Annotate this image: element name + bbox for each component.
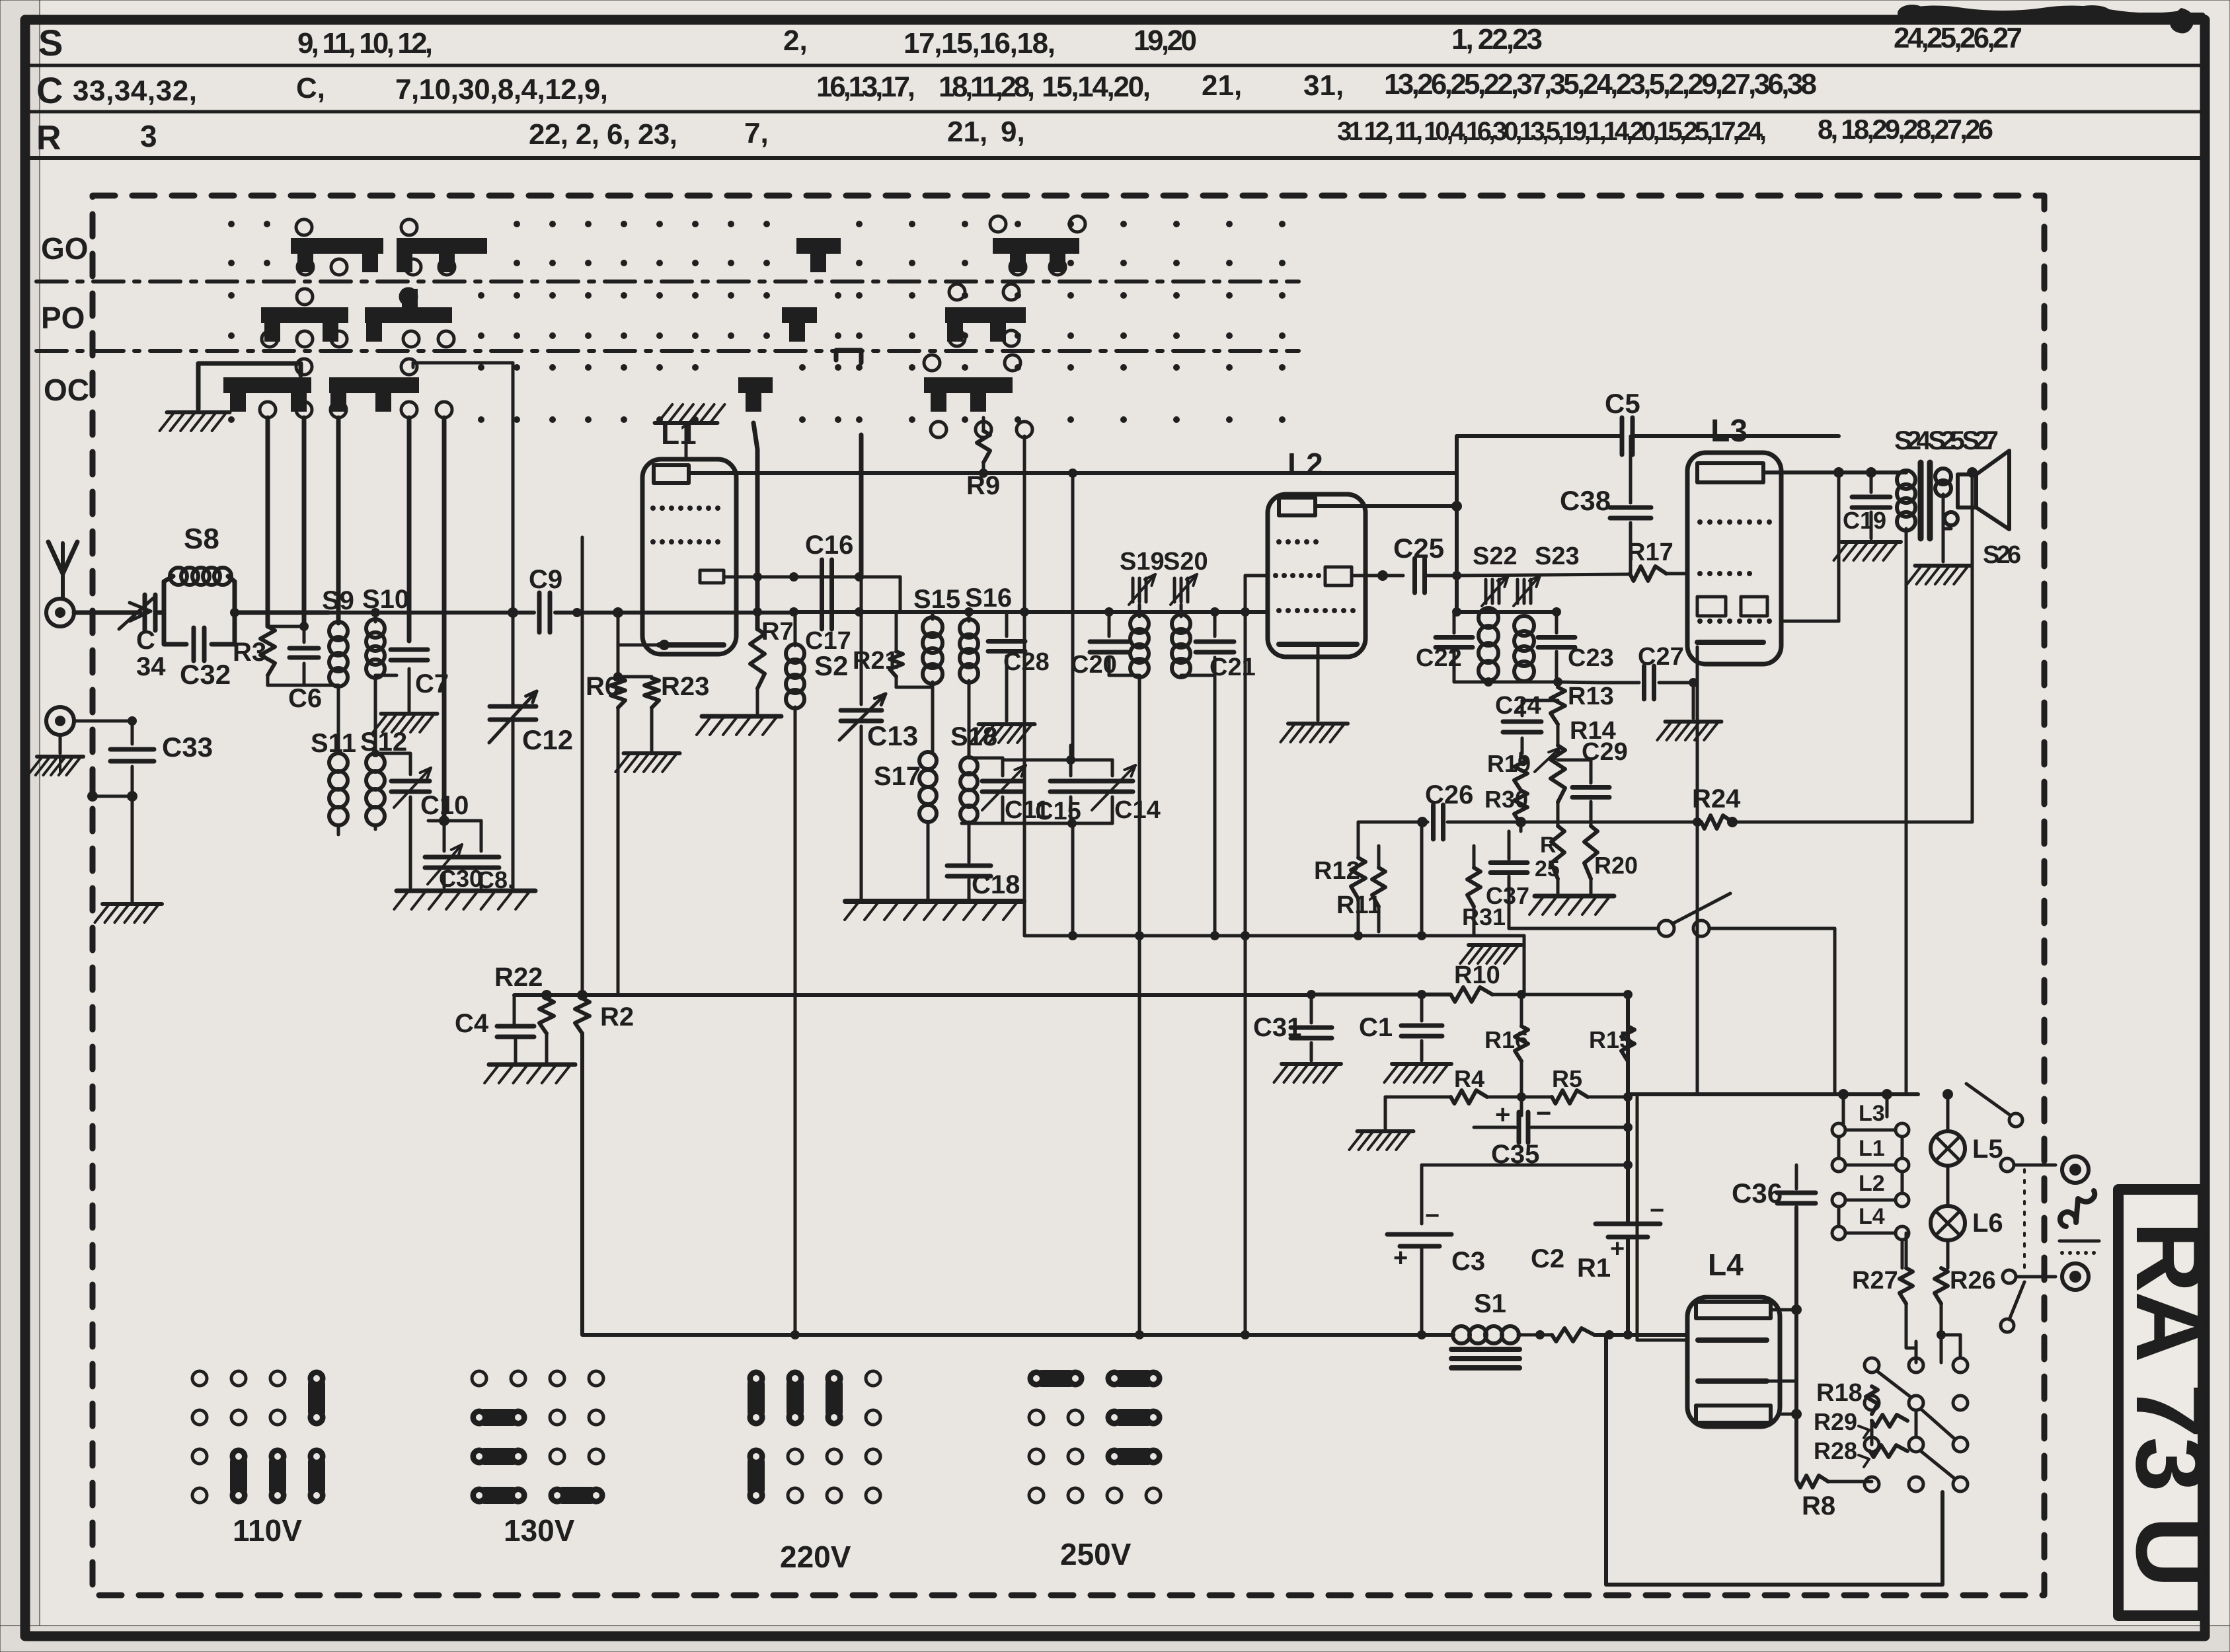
header line S/C	[30, 64, 2205, 67]
label 220V	[780, 1540, 851, 1574]
L1 grid box	[700, 570, 724, 583]
wire OC drop 2	[268, 418, 309, 631]
capacitor C7	[375, 650, 428, 711]
variable capacitor C30	[425, 821, 463, 887]
resistor R3	[260, 626, 275, 685]
label R25	[1535, 833, 1560, 882]
L1 cathode	[618, 640, 724, 650]
svg-text:110V: 110V	[233, 1513, 302, 1548]
capacitor C35	[1474, 1097, 1633, 1143]
label R4	[1454, 1065, 1484, 1092]
svg-text:R8: R8	[1802, 1491, 1835, 1521]
label C26	[1425, 780, 1473, 809]
coil S12	[366, 753, 385, 825]
label C19	[1843, 507, 1886, 534]
label L2	[1288, 447, 1323, 481]
capacitor C2 electrolytic	[1596, 1224, 1660, 1237]
L1 anode	[654, 465, 1457, 483]
PO row dots	[228, 292, 1286, 339]
svg-text:C36: C36	[1732, 1178, 1783, 1209]
capacitor C33	[110, 721, 154, 902]
label C22	[1416, 644, 1462, 672]
speaker	[1958, 451, 2009, 529]
header line C/R	[30, 110, 2205, 114]
coil S2	[786, 612, 804, 936]
svg-text:R11: R11	[1336, 891, 1381, 919]
switch top1	[1918, 1084, 2022, 1127]
lamp L5	[1931, 1131, 1965, 1166]
label C30	[439, 865, 482, 892]
label S20	[1163, 548, 1208, 576]
svg-text:C21: C21	[1210, 654, 1256, 681]
svg-text:R20: R20	[1594, 852, 1638, 879]
label S19	[1120, 548, 1165, 576]
label R19	[1487, 750, 1531, 777]
wire x1362 drop	[899, 577, 902, 612]
label C23	[1568, 644, 1614, 672]
wire R2 bus	[618, 993, 1311, 997]
svg-text:C22: C22	[1416, 644, 1462, 672]
svg-text:S10: S10	[362, 585, 409, 614]
ground C28	[970, 724, 1034, 743]
capacitor C36	[1777, 1165, 1816, 1480]
ground R25R20	[1529, 896, 1614, 915]
labels S22 S23	[1473, 543, 1580, 570]
wire grid2	[1781, 472, 1839, 621]
svg-text:R: R	[1540, 833, 1557, 858]
ground speaker wire	[1943, 527, 1951, 531]
svg-text:C28: C28	[1003, 648, 1050, 676]
wire S12 to C10	[371, 749, 410, 774]
switch bar OC-3	[738, 377, 773, 412]
label 130V	[504, 1513, 575, 1548]
resistor R31	[1467, 846, 1480, 936]
wire main bus	[235, 611, 534, 615]
svg-text:C18: C18	[972, 870, 1020, 899]
label C2 minus	[1650, 1197, 1664, 1224]
wire socket B	[74, 716, 137, 726]
wire bottom loop	[1606, 1335, 1942, 1585]
label C32	[180, 659, 231, 690]
label R22	[494, 963, 543, 992]
selector 250V	[1029, 1370, 1161, 1503]
capacitor C27	[1599, 666, 1698, 718]
ground C19	[1834, 542, 1902, 560]
variable capacitor C14	[1092, 760, 1135, 823]
wire R22 node	[514, 990, 618, 1000]
svg-text:31 12, 11, 10,4,16,30,13,5,19,: 31 12, 11, 10,4,16,30,13,5,19,1,14,20,15…	[1337, 117, 1767, 146]
capacitor C1	[1401, 995, 1442, 1061]
dash-dot line PO/OC	[36, 349, 1299, 353]
svg-text:7,10,30,8,4,12,9,: 7,10,30,8,4,12,9,	[395, 73, 608, 106]
svg-text:C19: C19	[1843, 507, 1886, 534]
wire C15C14 frame	[962, 469, 1112, 940]
capacitor C15	[1050, 760, 1091, 823]
svg-text:R23: R23	[661, 672, 709, 701]
label S11	[311, 729, 356, 758]
label L4	[1708, 1248, 1744, 1282]
switch blade2	[2001, 1282, 2024, 1332]
label S26	[1983, 541, 2021, 569]
svg-text:R1: R1	[1577, 1254, 1611, 1283]
potentiometer R14	[1535, 745, 1565, 802]
switch R24	[1658, 822, 1732, 936]
svg-text:L2: L2	[1859, 1171, 1885, 1196]
RA73U box	[2118, 1189, 2203, 1616]
C row values	[73, 68, 1817, 107]
svg-text:22, 2, 6, 23,: 22, 2, 6, 23,	[529, 118, 677, 151]
label C15	[1035, 798, 1081, 825]
resistor R26	[1935, 1268, 1948, 1335]
label R11	[1336, 891, 1381, 919]
selector 220V	[748, 1371, 880, 1503]
capacitor C18	[947, 856, 991, 899]
variable capacitor C11	[969, 758, 1026, 823]
svg-text:C27: C27	[1638, 643, 1684, 671]
svg-text:C9: C9	[529, 565, 562, 594]
ground L1 stage	[697, 716, 781, 735]
capacitor C24	[1503, 700, 1558, 753]
svg-text:19,20: 19,20	[1134, 24, 1197, 57]
svg-text:L5: L5	[1972, 1135, 2003, 1164]
svg-text:L1: L1	[661, 416, 697, 451]
capacitor C26	[1417, 805, 1526, 839]
label R23	[661, 672, 709, 701]
svg-text:C5: C5	[1605, 388, 1640, 419]
coil S16	[960, 607, 978, 758]
label R24	[1692, 784, 1741, 813]
label R10	[1454, 961, 1500, 989]
svg-text:R31: R31	[1462, 903, 1506, 930]
label C28	[1003, 648, 1050, 676]
svg-text:R28: R28	[1814, 1437, 1857, 1464]
svg-text:R22: R22	[494, 963, 543, 992]
labels S24 S25 S27	[1894, 426, 1999, 455]
L1 grid wire	[724, 576, 794, 579]
ground above L1	[655, 404, 725, 423]
label S9	[322, 586, 354, 615]
wire bus2	[1311, 990, 1451, 999]
label GO	[41, 231, 89, 266]
ground C33	[95, 904, 163, 922]
capacitor C31	[1291, 990, 1332, 1061]
wire L3 cathode down	[1696, 647, 1699, 1094]
capacitor C29	[1558, 760, 1609, 826]
L3 grid dots	[1697, 519, 1772, 624]
label 250V	[1060, 1537, 1132, 1571]
wire bus right of C9	[555, 608, 794, 617]
svg-text:R4: R4	[1454, 1065, 1484, 1092]
wire L1 top	[685, 423, 688, 459]
svg-text:R18: R18	[1816, 1379, 1863, 1407]
RA73U text	[2116, 1221, 2227, 1588]
resistor R4	[1385, 1090, 1526, 1104]
wire L4 bottom	[1796, 1480, 1824, 1481]
svg-text:16,13,17,: 16,13,17,	[816, 71, 915, 103]
svg-text:34: 34	[136, 652, 166, 681]
transformer core	[1921, 463, 1930, 539]
capacitor C4	[497, 995, 534, 1062]
socket B	[46, 707, 74, 735]
svg-text:220V: 220V	[780, 1540, 851, 1574]
resistor R20	[1584, 826, 1597, 893]
L1 grid dots	[650, 506, 720, 544]
label C35 plus	[1495, 1100, 1510, 1129]
L3 cathode	[1697, 640, 1763, 645]
svg-text:S19: S19	[1120, 548, 1165, 576]
capacitor C16	[822, 560, 832, 594]
wire C12 drop	[413, 363, 518, 705]
wire R21-S15	[896, 686, 933, 689]
label R21	[853, 647, 899, 675]
PO-4 rings	[949, 284, 1019, 346]
L3 grids	[1697, 597, 1767, 616]
variable capacitor C13	[839, 577, 886, 900]
label C8	[477, 866, 514, 893]
selector 130V	[472, 1371, 603, 1504]
tube L4	[1687, 1297, 1780, 1427]
row label R	[36, 119, 61, 157]
transformer primary	[1897, 470, 1915, 562]
wire C21 drop	[1213, 675, 1217, 936]
label R18	[1816, 1379, 1863, 1407]
label C16	[805, 531, 853, 560]
label L1	[661, 416, 697, 451]
S row values	[297, 22, 2022, 59]
wire L2 grid	[1352, 570, 1403, 581]
trimmer S19	[1129, 574, 1155, 605]
wire R1 right	[1594, 1330, 1687, 1339]
svg-text:C23: C23	[1568, 644, 1614, 672]
label C1	[1359, 1013, 1393, 1042]
label C27	[1638, 643, 1684, 671]
wire OC bend	[836, 350, 861, 363]
pickup dashes	[2059, 1241, 2099, 1255]
wire v2306	[1523, 936, 1526, 995]
svg-text:C6: C6	[288, 684, 322, 713]
label R13	[1568, 683, 1614, 710]
ladder L2	[1832, 1171, 1909, 1207]
label C14	[1114, 796, 1161, 824]
wire bus through L1	[789, 607, 1268, 617]
label R6	[586, 672, 619, 701]
capacitor C3 electrolytic	[1387, 1165, 1451, 1335]
ground transformer	[1907, 522, 1971, 584]
antenna socket	[46, 599, 74, 626]
wire C27 left	[1557, 682, 1599, 683]
resistor R17	[1457, 566, 1687, 581]
label R14	[1570, 717, 1616, 745]
resistor R9	[977, 418, 990, 478]
wire L4 left	[1637, 1097, 1687, 1340]
label R30	[1484, 786, 1528, 813]
wire S10 stub	[371, 608, 380, 622]
svg-text:C2: C2	[1531, 1244, 1564, 1273]
wire v1723b	[1138, 936, 1141, 1335]
label R1	[1577, 1254, 1611, 1283]
label R20	[1594, 852, 1638, 879]
label C25	[1393, 533, 1444, 564]
svg-text:−: −	[1536, 1099, 1551, 1128]
label PO	[41, 301, 85, 335]
svg-text:L1: L1	[1859, 1136, 1885, 1161]
OC ground	[160, 412, 230, 431]
svg-text:S11: S11	[311, 729, 356, 758]
svg-text:R2: R2	[600, 1002, 634, 1032]
capacitor C34	[145, 595, 164, 630]
label R15	[1589, 1026, 1633, 1053]
wire v1550	[1020, 436, 1029, 936]
switch bar GO-3	[796, 238, 841, 272]
label R3	[233, 638, 266, 667]
switch bar GO-1	[291, 238, 383, 272]
svg-text:+: +	[1393, 1244, 1408, 1272]
resistor R6	[611, 607, 625, 995]
svg-text:9, 11, 10, 12,: 9, 11, 10, 12,	[297, 27, 433, 59]
coil S10	[366, 613, 385, 753]
capacitor C8	[428, 815, 499, 887]
svg-text:R9: R9	[966, 471, 1000, 500]
svg-text:L3: L3	[1711, 414, 1748, 449]
wire OC drop 3	[336, 418, 341, 623]
ground R22R2	[484, 1065, 575, 1083]
ground C1	[1385, 1064, 1452, 1082]
wire v2886	[1905, 562, 1908, 1092]
wire gnd drop	[1349, 1097, 1413, 1150]
label C6	[288, 684, 322, 713]
svg-text:C3: C3	[1451, 1247, 1485, 1276]
svg-text:R27: R27	[1852, 1267, 1898, 1295]
capacitor C9	[539, 593, 550, 632]
label S16	[965, 583, 1012, 613]
phono socket 2	[2062, 1263, 2089, 1290]
wire C20 box	[1104, 607, 1139, 675]
switch bar PO-2	[365, 289, 452, 342]
junction S12 C10	[374, 825, 377, 829]
label C2	[1531, 1244, 1564, 1273]
label C17	[805, 627, 851, 655]
coil S19	[1130, 605, 1149, 936]
resistor R1	[1552, 1328, 1594, 1341]
wire antenna	[74, 611, 140, 615]
coil S11	[329, 753, 348, 835]
capacitor C37	[1490, 831, 1527, 928]
label C37	[1486, 882, 1529, 909]
coil S17	[919, 752, 937, 899]
OC rings	[260, 359, 452, 418]
PO-1 rings	[262, 289, 347, 347]
svg-text:C7: C7	[415, 669, 449, 698]
coil S20	[1172, 605, 1190, 677]
svg-text:R24: R24	[1692, 784, 1741, 813]
wire x881 upper	[581, 537, 584, 995]
svg-text:L3: L3	[1859, 1101, 1885, 1126]
svg-text:R17: R17	[1627, 539, 1673, 566]
svg-text:C14: C14	[1114, 796, 1161, 824]
wire det mid	[1358, 822, 1426, 940]
resistor R21	[890, 612, 903, 687]
svg-text:C31: C31	[1253, 1013, 1301, 1042]
label C9	[529, 565, 562, 594]
pickup symbol	[2060, 1191, 2095, 1226]
coil S8	[164, 568, 235, 613]
ladder wires	[1839, 1094, 1902, 1268]
svg-text:L2: L2	[1288, 447, 1323, 481]
wire y873	[757, 572, 900, 582]
row label S	[38, 22, 63, 63]
wire h1656	[1628, 1089, 1918, 1100]
wire sw cont	[1509, 928, 1835, 1094]
switch bar PO-4	[945, 307, 1026, 342]
resistor R12	[1351, 822, 1365, 936]
wire to R3	[230, 608, 328, 617]
svg-text:S26: S26	[1983, 541, 2021, 569]
wire C5 right	[1634, 434, 1839, 438]
L2 grid box	[1325, 567, 1352, 585]
label C5	[1605, 388, 1640, 419]
label R8	[1802, 1491, 1835, 1521]
label R12	[1314, 857, 1360, 885]
label C21	[1210, 654, 1256, 681]
label C18	[972, 870, 1020, 899]
resistor R23	[613, 672, 659, 751]
label S12	[360, 728, 407, 757]
svg-text:S20: S20	[1163, 548, 1208, 576]
label C10	[420, 791, 469, 820]
wire h1763	[1422, 1164, 1628, 1167]
label OC	[44, 373, 89, 407]
svg-text:R16: R16	[1484, 1026, 1528, 1053]
ground C27	[1657, 722, 1721, 740]
resistor R5	[1487, 1090, 1633, 1104]
label R2	[600, 1002, 634, 1032]
label C3 minus	[1425, 1202, 1440, 1230]
switch bank wires	[1872, 1330, 1960, 1445]
tube L3	[1687, 453, 1781, 664]
label R28	[1814, 1437, 1869, 1467]
label C13	[867, 720, 918, 751]
capacitor C21	[1181, 607, 1234, 675]
wire x2204	[1451, 436, 1462, 612]
wire v2984	[1967, 467, 1978, 822]
wire OC drop R2	[859, 435, 864, 577]
label S2	[814, 650, 848, 681]
row label C	[36, 69, 63, 111]
switch bar PO-3	[782, 307, 817, 342]
resistor R13	[1551, 677, 1565, 745]
phono socket 1	[2062, 1156, 2089, 1183]
svg-text:13,26,25,22,37,35,24,23,5,2,29: 13,26,25,22,37,35,24,23,5,2,29,27,36,38	[1384, 68, 1817, 100]
capacitor C38	[1610, 436, 1651, 574]
svg-text:250V: 250V	[1060, 1537, 1132, 1571]
svg-text:OC: OC	[44, 373, 89, 407]
coil S18	[960, 757, 978, 856]
svg-text:21,: 21,	[947, 116, 987, 148]
capacitor C28	[988, 612, 1025, 721]
svg-text:S17: S17	[874, 762, 921, 791]
label C35	[1491, 1140, 1539, 1169]
tube L1	[642, 459, 736, 654]
transformer secondary	[1935, 469, 1958, 525]
S1 core	[1451, 1349, 1519, 1368]
svg-text:L4: L4	[1708, 1248, 1744, 1282]
svg-text:S8: S8	[184, 523, 219, 555]
label C24	[1495, 692, 1541, 720]
resistor R30	[1514, 790, 1527, 831]
svg-text:24,25,26,27: 24,25,26,27	[1894, 22, 2022, 54]
switch bank	[1865, 1358, 1968, 1491]
L4 bottom rect	[1696, 1406, 1771, 1423]
